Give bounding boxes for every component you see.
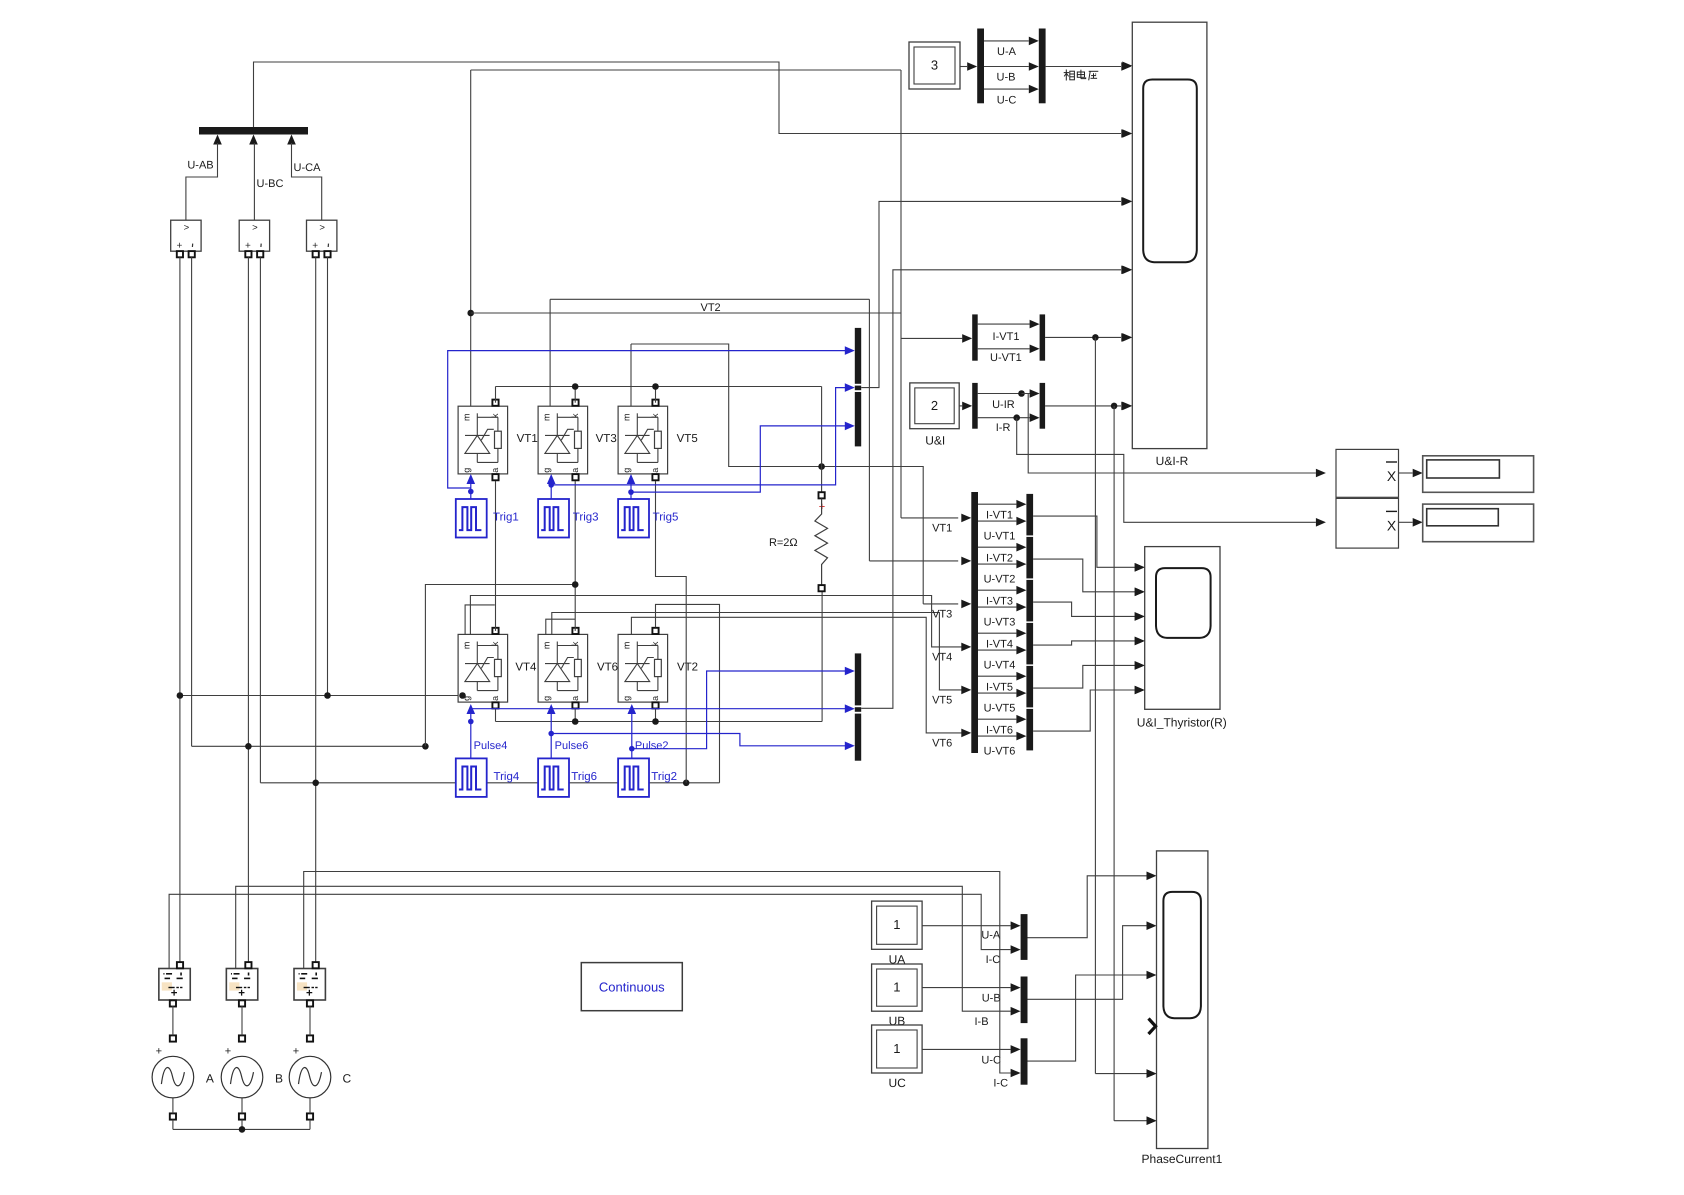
svg-text:C: C xyxy=(342,1072,351,1086)
svg-text:VT2: VT2 xyxy=(701,302,721,314)
svg-text:PhaseCurrent1: PhaseCurrent1 xyxy=(1142,1152,1223,1166)
svg-text:+: + xyxy=(245,241,251,252)
svg-text:a: a xyxy=(490,468,500,473)
svg-text:1: 1 xyxy=(893,917,900,932)
svg-text:U&I: U&I xyxy=(925,434,945,448)
svg-text:I-VT5: I-VT5 xyxy=(986,681,1013,693)
svg-text:U-CA: U-CA xyxy=(294,162,322,174)
svg-text:B: B xyxy=(275,1072,283,1086)
svg-text:I-C: I-C xyxy=(993,1078,1008,1090)
svg-text:UC: UC xyxy=(889,1076,907,1090)
svg-text:U-BC: U-BC xyxy=(257,178,284,190)
svg-text:+: + xyxy=(312,241,318,252)
svg-text:U-VT4: U-VT4 xyxy=(984,659,1016,671)
svg-text:VT1: VT1 xyxy=(932,522,952,534)
svg-text:m: m xyxy=(462,642,472,650)
svg-text:+: + xyxy=(306,988,313,1000)
svg-text:Trig5: Trig5 xyxy=(653,512,679,524)
svg-text:I-VT2: I-VT2 xyxy=(986,552,1013,564)
svg-text:U-B: U-B xyxy=(982,993,1001,1005)
svg-text:U-VT6: U-VT6 xyxy=(984,745,1016,757)
svg-text:Pulse2: Pulse2 xyxy=(635,740,669,752)
svg-text:U-C: U-C xyxy=(997,95,1017,107)
svg-text:VT6: VT6 xyxy=(932,737,952,749)
svg-text:Trig3: Trig3 xyxy=(573,512,599,524)
svg-text:m: m xyxy=(462,413,472,421)
svg-text:g: g xyxy=(622,468,632,473)
svg-text:Trig4: Trig4 xyxy=(494,771,520,783)
svg-text:a: a xyxy=(650,696,660,701)
svg-text:Continuous: Continuous xyxy=(599,980,665,995)
svg-text:I-VT1: I-VT1 xyxy=(993,331,1020,343)
svg-text:U&I-R: U&I-R xyxy=(1156,454,1189,468)
svg-text:3: 3 xyxy=(931,58,938,73)
svg-text:I-B: I-B xyxy=(974,1016,988,1028)
svg-text:g: g xyxy=(462,468,472,473)
svg-text:U-VT3: U-VT3 xyxy=(984,616,1016,628)
svg-text:Trig1: Trig1 xyxy=(493,512,519,524)
svg-text:2: 2 xyxy=(931,398,938,413)
svg-text:m: m xyxy=(542,642,552,650)
svg-text:m: m xyxy=(542,413,552,421)
svg-text:U-VT2: U-VT2 xyxy=(984,573,1016,585)
svg-text:+: + xyxy=(225,1046,231,1058)
svg-text:a: a xyxy=(650,468,660,473)
svg-text:I-VT1: I-VT1 xyxy=(986,509,1013,521)
svg-text:1: 1 xyxy=(893,1041,900,1056)
svg-text:>: > xyxy=(184,223,190,234)
svg-text:Trig2: Trig2 xyxy=(651,771,677,783)
svg-text:Pulse6: Pulse6 xyxy=(555,740,589,752)
svg-text:>: > xyxy=(319,223,325,234)
svg-text:1: 1 xyxy=(893,980,900,995)
svg-text:I-VT6: I-VT6 xyxy=(986,724,1013,736)
svg-text:X: X xyxy=(1387,468,1397,484)
svg-text:m: m xyxy=(622,413,632,421)
svg-text:U-C: U-C xyxy=(981,1054,1001,1066)
svg-text:U-B: U-B xyxy=(997,72,1016,84)
svg-text:VT3: VT3 xyxy=(596,433,617,445)
svg-text:VT5: VT5 xyxy=(677,433,698,445)
svg-text:U-A: U-A xyxy=(981,929,1001,941)
svg-text:U-AB: U-AB xyxy=(187,160,213,172)
svg-text:a: a xyxy=(490,696,500,701)
svg-text:U-VT1: U-VT1 xyxy=(984,530,1016,542)
svg-text:VT2: VT2 xyxy=(677,661,698,673)
svg-text:U-IR: U-IR xyxy=(992,399,1015,411)
svg-text:VT1: VT1 xyxy=(517,433,538,445)
svg-text:+: + xyxy=(176,241,182,252)
svg-text:VT4: VT4 xyxy=(932,651,952,663)
svg-text:g: g xyxy=(622,696,632,701)
svg-text:VT3: VT3 xyxy=(932,608,952,620)
svg-text:VT6: VT6 xyxy=(597,661,618,673)
svg-text:Pulse4: Pulse4 xyxy=(474,740,508,752)
svg-text:U-VT1: U-VT1 xyxy=(990,352,1022,364)
svg-text:+: + xyxy=(171,988,178,1000)
svg-text:VT4: VT4 xyxy=(515,661,537,673)
svg-text:g: g xyxy=(542,696,552,701)
svg-text:I-VT4: I-VT4 xyxy=(986,638,1013,650)
svg-text:I-C: I-C xyxy=(986,954,1001,966)
svg-text:m: m xyxy=(622,642,632,650)
svg-text:a: a xyxy=(570,468,580,473)
svg-text:U-A: U-A xyxy=(997,46,1017,58)
svg-text:U-VT5: U-VT5 xyxy=(984,702,1016,714)
svg-text:I-VT3: I-VT3 xyxy=(986,595,1013,607)
svg-text:I-R: I-R xyxy=(996,422,1011,434)
svg-text:+: + xyxy=(238,988,245,1000)
svg-text:+: + xyxy=(293,1046,299,1058)
svg-text:+: + xyxy=(156,1046,162,1058)
svg-text:g: g xyxy=(542,468,552,473)
svg-text:>: > xyxy=(252,223,258,234)
svg-text:a: a xyxy=(570,696,580,701)
svg-text:X: X xyxy=(1387,518,1397,534)
svg-text:A: A xyxy=(206,1072,214,1086)
svg-text:U&I_Thyristor(R): U&I_Thyristor(R) xyxy=(1137,716,1227,730)
svg-text:VT5: VT5 xyxy=(932,694,952,706)
svg-text:Trig6: Trig6 xyxy=(571,771,597,783)
svg-text:R=2Ω: R=2Ω xyxy=(769,537,798,549)
